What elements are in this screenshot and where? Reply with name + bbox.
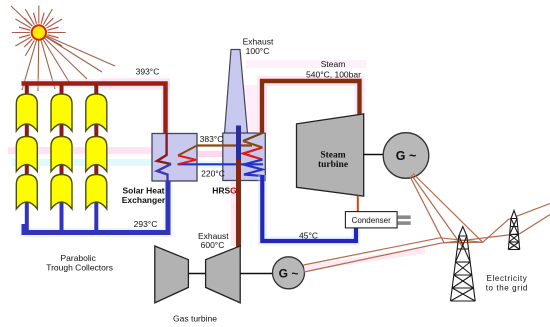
svg-text:turbine: turbine: [318, 160, 348, 170]
svg-text:Steam: Steam: [321, 59, 346, 69]
svg-text:Exchanger: Exchanger: [122, 195, 166, 205]
svg-text:Solar Heat: Solar Heat: [122, 186, 164, 196]
svg-text:293°C: 293°C: [134, 219, 158, 229]
svg-text:393°C: 393°C: [136, 67, 160, 77]
svg-text:Electricity: Electricity: [487, 274, 528, 283]
svg-text:G ~: G ~: [396, 149, 417, 163]
svg-text:Steam: Steam: [320, 151, 345, 161]
svg-text:100°C: 100°C: [246, 46, 270, 56]
svg-text:Trough Collectors: Trough Collectors: [46, 263, 113, 273]
svg-text:to the grid: to the grid: [486, 284, 528, 293]
svg-text:Exhaust: Exhaust: [243, 37, 274, 47]
svg-text:45°C: 45°C: [299, 231, 318, 241]
svg-text:Condenser: Condenser: [352, 216, 391, 225]
svg-text:Gas turbine: Gas turbine: [173, 314, 217, 324]
svg-text:540°C, 100bar: 540°C, 100bar: [306, 69, 361, 79]
svg-text:383°C: 383°C: [200, 134, 224, 144]
svg-text:HRSG: HRSG: [212, 186, 237, 196]
svg-text:600°C: 600°C: [201, 240, 225, 250]
svg-text:G ~: G ~: [279, 266, 299, 280]
svg-text:220°C: 220°C: [201, 169, 225, 179]
